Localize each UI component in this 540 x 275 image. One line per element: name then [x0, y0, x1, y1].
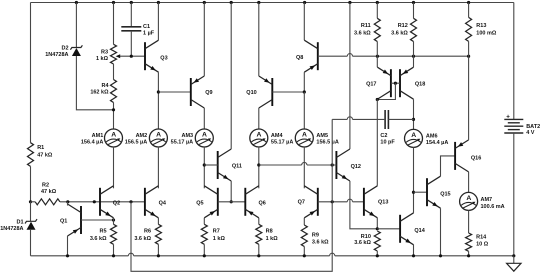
transistor Q7 — [298, 186, 318, 218]
ammeter AM5 — [295, 129, 339, 147]
svg-text:Q10: Q10 — [246, 90, 256, 96]
node D2 top — [75, 1, 78, 4]
node C1 top — [130, 1, 133, 4]
wire Q8 base row — [318, 54, 469, 57]
node R5 bottom — [112, 254, 115, 257]
wire AM2 to Q4 collector — [157, 147, 159, 188]
wire Q15 base — [414, 191, 428, 193]
svg-text:R7: R7 — [213, 228, 220, 234]
svg-text:Q16: Q16 — [471, 155, 481, 161]
transistor Q16 — [455, 140, 481, 172]
wire rail to D2 — [75, 3, 77, 48]
svg-text:3.6 kΩ: 3.6 kΩ — [90, 236, 107, 242]
wire R9 to ground rail — [303, 247, 305, 256]
svg-text:Q2: Q2 — [113, 200, 120, 206]
node Q3 collector top — [157, 1, 160, 4]
node R12 junction — [412, 55, 415, 58]
wire AM4 to Q6 collector — [258, 147, 260, 188]
wire Q8 collector to rail — [303, 3, 305, 41]
svg-text:A: A — [111, 132, 116, 139]
svg-text:10 Ω: 10 Ω — [476, 241, 489, 247]
wire R8 to ground rail — [258, 244, 260, 256]
wire Q1 collector stub — [67, 202, 69, 206]
transistor Q14 — [400, 213, 426, 245]
svg-text:A: A — [302, 132, 307, 139]
transistor Q11 — [218, 149, 242, 181]
wire rail to R13 — [468, 3, 470, 18]
node Q9 base junction — [157, 90, 160, 93]
wire Q4 emitter to R6 — [157, 218, 159, 225]
node Q11 base junction — [203, 163, 206, 166]
wire rail to C1 — [130, 3, 132, 27]
wire AM1 to Q2 collector — [113, 147, 115, 188]
wire R6 to ground rail — [157, 244, 159, 256]
svg-text:1 kΩ: 1 kΩ — [213, 236, 226, 242]
left rail wire (D1 to bottom) — [30, 230, 32, 256]
node Q17 collector/base junction — [376, 98, 379, 101]
wire Q9 base — [158, 91, 190, 93]
node Q15 emitter bottom — [439, 254, 442, 257]
svg-text:Q11: Q11 — [232, 163, 242, 169]
transistor Q15 — [427, 176, 451, 208]
resistor R2 — [31, 182, 60, 204]
ammeter AM4 — [250, 129, 294, 147]
node Q12 base-wire junction — [257, 163, 260, 166]
resistor R10 — [354, 231, 380, 251]
wire battery to ground rail — [513, 133, 515, 256]
wire Q11 collector to rail — [230, 3, 232, 150]
svg-text:Q17: Q17 — [366, 82, 376, 88]
svg-text:BAT2: BAT2 — [526, 124, 540, 130]
svg-text:R14: R14 — [476, 234, 487, 240]
svg-text:A: A — [466, 195, 471, 202]
node C1 junction — [130, 55, 133, 58]
transistor Q12 — [336, 149, 361, 181]
wire R14 to ground rail — [468, 251, 470, 256]
svg-text:AM3: AM3 — [181, 133, 193, 139]
wire output feedback loop — [131, 119, 332, 271]
node output feedback junction — [129, 200, 132, 203]
svg-text:A: A — [411, 132, 416, 139]
svg-text:Q12: Q12 — [351, 164, 361, 170]
svg-text:3.6 kΩ: 3.6 kΩ — [134, 236, 151, 242]
node Q5/Q6 base junction — [230, 200, 233, 203]
left rail wire (R1 to R2 node) — [30, 166, 32, 201]
wire C1 to Q3 base row — [130, 31, 132, 56]
node Q11 collector top — [230, 1, 233, 4]
wire Q1 emitter to ground rail — [67, 236, 69, 256]
left rail wire (upper segment) — [30, 3, 32, 143]
resistor R4 — [90, 80, 116, 103]
svg-text:A: A — [202, 132, 207, 139]
resistor R13 — [466, 17, 497, 41]
svg-text:Q1: Q1 — [60, 218, 67, 224]
node R7 bottom — [203, 254, 206, 257]
power rail V+ (top) — [31, 2, 514, 4]
svg-text:4 V: 4 V — [526, 130, 535, 136]
transistor Q18 — [400, 67, 425, 99]
node R14 bottom — [467, 254, 470, 257]
node C2 right junction — [412, 118, 415, 121]
wire R12 to Q18 emitter — [413, 56, 415, 67]
svg-text:AM2: AM2 — [136, 133, 148, 139]
wire Q12 base — [259, 162, 337, 165]
svg-text:156.4 µA: 156.4 µA — [81, 140, 103, 146]
wire AM7 to R14 — [468, 210, 470, 233]
node R10 top junction — [376, 227, 379, 230]
transistor Q4 — [145, 186, 167, 218]
svg-text:R8: R8 — [266, 228, 273, 234]
svg-text:R4: R4 — [101, 83, 109, 89]
svg-text:C2: C2 — [380, 133, 387, 139]
svg-text:154.4 µA: 154.4 µA — [426, 140, 448, 146]
svg-text:1N4728A: 1N4728A — [0, 226, 23, 232]
wire C2 left — [332, 117, 385, 120]
wire R11 to Q17 emitter — [376, 56, 378, 67]
svg-text:A: A — [257, 132, 262, 139]
svg-text:156.5 µA: 156.5 µA — [125, 140, 147, 146]
wire Q12 emitter down — [350, 181, 377, 229]
resistor R9 — [301, 225, 329, 247]
wire Q17 collector to Q13 collector — [376, 99, 378, 186]
zener diode D1 — [0, 219, 37, 232]
svg-text:A: A — [156, 132, 161, 139]
node R12 top — [412, 1, 415, 4]
transistor Q1 — [60, 204, 81, 236]
svg-text:162 kΩ: 162 kΩ — [90, 90, 109, 96]
wire Q5 emitter to R7 — [203, 218, 205, 225]
svg-text:1 kΩ: 1 kΩ — [96, 56, 109, 62]
wire Q8 emitter down — [303, 72, 305, 92]
node base tie junction — [394, 82, 397, 85]
zener diode D2 — [45, 45, 82, 58]
svg-text:R3: R3 — [101, 49, 108, 55]
svg-text:R12: R12 — [398, 23, 408, 29]
node Q1 emitter bottom — [66, 254, 69, 257]
node R2-left junction — [29, 200, 32, 203]
svg-text:Q4: Q4 — [159, 200, 167, 206]
svg-text:3.6 kΩ: 3.6 kΩ — [354, 31, 371, 37]
wire Q3 collector to rail — [157, 3, 159, 41]
transistor Q5 — [196, 186, 218, 218]
wire R3 to R4 — [113, 64, 115, 80]
svg-text:3.6 kΩ: 3.6 kΩ — [354, 240, 371, 246]
svg-text:47 kΩ: 47 kΩ — [41, 189, 57, 195]
potentiometer R3 — [96, 44, 117, 64]
svg-text:1N4728A: 1N4728A — [45, 52, 68, 58]
node Q9 emitter top — [203, 1, 206, 4]
svg-text:Q9: Q9 — [205, 90, 212, 96]
svg-text:AM5: AM5 — [316, 133, 328, 139]
node battery-ground junction — [512, 254, 515, 257]
node R3 top — [112, 1, 115, 4]
node R9 bottom — [303, 254, 306, 257]
transistor Q3 — [145, 40, 168, 72]
resistor R1 — [28, 143, 53, 167]
svg-text:R1: R1 — [37, 145, 44, 151]
svg-text:1 µF: 1 µF — [143, 31, 155, 37]
svg-text:R6: R6 — [144, 228, 151, 234]
transistor Q10 — [246, 76, 272, 108]
wire Q1 base — [81, 219, 114, 221]
left rail wire (node to D1) — [30, 202, 32, 222]
wire R3 wiper to Q3 base — [122, 55, 146, 57]
wire Q13 emitter down — [376, 218, 378, 229]
svg-text:R11: R11 — [361, 23, 371, 29]
transistor Q17 — [366, 67, 391, 99]
ground rail (bottom) — [31, 253, 514, 256]
wire Q2 emitter to R5 — [113, 218, 115, 225]
resistor R14 — [466, 233, 489, 251]
resistor R5 — [90, 224, 117, 244]
svg-text:Q18: Q18 — [415, 82, 425, 88]
ammeter AM1 — [81, 129, 123, 147]
svg-text:D1: D1 — [16, 219, 23, 225]
capacitor C1 — [121, 24, 154, 37]
node Q8/Q10/AM5 junction — [303, 90, 306, 93]
battery BAT2 — [504, 113, 540, 136]
svg-text:55.17 µA: 55.17 µA — [271, 140, 293, 146]
wire Q14 emitter to ground rail — [413, 245, 415, 256]
wire Q15 collector to Q16 base — [441, 156, 456, 176]
wire Q10 emitter to rail — [258, 3, 260, 77]
svg-text:R5: R5 — [99, 228, 106, 234]
wire rail to R3 — [113, 3, 115, 45]
ammeter AM3 — [171, 129, 214, 147]
svg-text:100 mΩ: 100 mΩ — [476, 31, 497, 37]
svg-text:Q3: Q3 — [160, 55, 167, 61]
svg-text:D2: D2 — [61, 46, 68, 52]
transistor Q13 — [364, 186, 389, 218]
svg-text:Q7: Q7 — [298, 200, 305, 206]
node R10 bottom — [376, 254, 379, 257]
wire rail to R11 — [376, 3, 378, 19]
wire R2 to Q2/Q4 bases — [60, 201, 145, 203]
transistor Q2 — [100, 186, 120, 218]
wire Q6 emitter to R8 — [258, 218, 260, 225]
wire Q16 collector to AM7 — [468, 172, 470, 193]
transistor Q9 — [191, 76, 213, 108]
svg-text:Q14: Q14 — [414, 228, 425, 234]
svg-text:C1: C1 — [143, 24, 150, 30]
wire rail to R12 — [413, 3, 415, 19]
wire Q7 emitter to R9 — [303, 218, 305, 225]
wire Q11 base — [204, 164, 217, 166]
wire AM6 to Q14 collector — [413, 147, 415, 212]
R3 wiper arrow — [116, 54, 122, 58]
wire AM5 to Q7 collector — [303, 147, 305, 188]
resistor R8 — [256, 224, 278, 244]
capacitor C2 — [380, 110, 395, 146]
node R13 junction — [467, 55, 470, 58]
wire Q18 collector to AM6 — [413, 99, 415, 129]
wire Q9 collector to AM3 — [203, 108, 205, 129]
node Q12 collector top — [348, 1, 351, 4]
ammeter AM2 — [125, 129, 168, 147]
node R8 bottom — [257, 254, 260, 257]
svg-text:100.6 mA: 100.6 mA — [481, 204, 505, 210]
wire Q16 emitter to R13 line — [468, 56, 470, 140]
wire Q3 emitter to AM2 — [157, 72, 159, 129]
svg-text:AM7: AM7 — [481, 197, 493, 203]
wire V+ rail to battery — [513, 3, 515, 120]
wire Q10 collector to AM4 — [258, 108, 260, 129]
svg-text:156.5 µA: 156.5 µA — [316, 140, 338, 146]
svg-text:R9: R9 — [312, 232, 319, 238]
wire Q7/Q13 base — [318, 199, 364, 202]
wire R11 to base row — [376, 42, 378, 57]
wire D2 to R4 node — [76, 56, 113, 110]
wire base tie to Q17 collector — [377, 83, 395, 99]
node D2/R4/AM1 junction — [112, 108, 115, 111]
svg-text:R2: R2 — [42, 182, 49, 188]
svg-text:Q8: Q8 — [296, 55, 303, 61]
svg-text:+: + — [506, 113, 510, 120]
node Q1 collector junction — [66, 200, 69, 203]
node Q15 base junction — [412, 191, 415, 194]
transistor Q6 — [245, 186, 266, 218]
wire AM3 to Q5 collector — [203, 147, 205, 188]
node Q1 base to R5 junction — [112, 218, 115, 221]
wire Q15 emitter to ground rail — [440, 208, 442, 256]
node Q14 emitter bottom — [412, 254, 415, 257]
wire Q5/Q6 base — [218, 201, 246, 203]
wire C2 right — [388, 118, 413, 120]
node R6 bottom — [157, 254, 160, 257]
node Q10 emitter top — [257, 1, 260, 4]
wire R10 to ground rail — [376, 251, 378, 256]
svg-text:Q6: Q6 — [259, 200, 266, 206]
transistor Q8 — [296, 40, 318, 72]
svg-text:AM1: AM1 — [92, 133, 104, 139]
wire Q9 emitter to rail — [203, 3, 205, 77]
node Q2 base junction — [93, 200, 96, 203]
svg-text:Q5: Q5 — [196, 200, 203, 206]
wire R7 to ground rail — [203, 244, 205, 256]
resistor R12 — [391, 18, 416, 41]
node loop/Q7-base junction — [331, 200, 334, 203]
wire Q12 collector to rail — [349, 3, 351, 150]
resistor R7 — [201, 224, 225, 244]
resistor R6 — [134, 224, 161, 244]
svg-text:55.17 µA: 55.17 µA — [171, 140, 193, 146]
svg-text:R13: R13 — [476, 23, 486, 29]
ammeter AM7 — [460, 192, 505, 210]
wire R4 to AM1 — [113, 103, 115, 130]
wire Q11 emitter down — [230, 181, 232, 202]
wire Q10 base — [272, 91, 304, 93]
svg-text:AM4: AM4 — [271, 133, 284, 139]
wire R5 to ground rail — [113, 244, 115, 256]
wire R13 to base row — [468, 41, 470, 56]
svg-text:3.6 kΩ: 3.6 kΩ — [312, 240, 329, 246]
svg-text:10 pF: 10 pF — [380, 140, 395, 146]
ground symbol — [507, 256, 521, 271]
wire Q14 base — [377, 228, 400, 230]
svg-text:AM6: AM6 — [426, 133, 438, 139]
node Q8 collector top — [303, 1, 306, 4]
node R11 top — [376, 1, 379, 4]
node R13 top — [467, 1, 470, 4]
svg-text:3.6 kΩ: 3.6 kΩ — [391, 31, 408, 37]
node R11 junction — [376, 55, 379, 58]
wire Q17/Q18 base tie — [391, 82, 400, 84]
svg-text:1 kΩ: 1 kΩ — [266, 236, 279, 242]
node loop/Q12-base junction — [331, 163, 334, 166]
resistor R11 — [354, 18, 380, 41]
svg-text:Q15: Q15 — [440, 191, 450, 197]
wire junction to AM5 — [303, 92, 305, 129]
wire R12 to base row — [413, 42, 415, 57]
svg-text:Q13: Q13 — [378, 200, 388, 206]
ammeter AM6 — [405, 129, 449, 147]
svg-text:47 kΩ: 47 kΩ — [37, 153, 53, 159]
